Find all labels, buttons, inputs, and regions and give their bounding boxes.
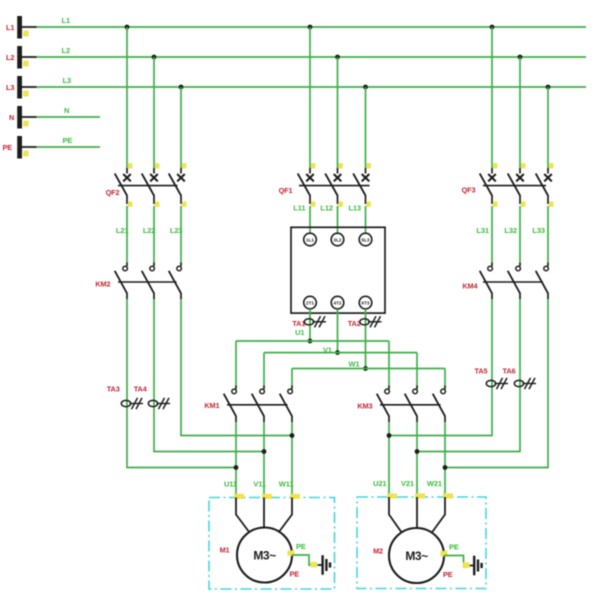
breaker QF3 linkage bar [483,185,546,187]
wire KM2.3 to node W11 [181,299,292,435]
wire U1 horizontal [236,340,389,342]
svg-text:L3: L3 [63,76,72,85]
svg-text:L22: L22 [143,226,156,235]
terminal 2T1 [304,296,317,309]
terminal marker M2 PE tap [441,551,448,557]
contactor KM2 linkage bar [118,281,177,283]
contactor KM1 pole contact x=292 [280,385,293,422]
svg-text:N: N [9,113,14,122]
terminal marker motor2 x=389 [387,493,397,498]
breaker QF1 pole terminal x=365.5 [353,163,371,207]
terminal marker motor1 x=292 [290,494,300,499]
soft starter U1 box [291,227,385,313]
svg-text:PE: PE [63,136,73,145]
terminal marker M1 ground corner [311,562,318,568]
svg-text:M1: M1 [220,546,230,555]
svg-text:KM2: KM2 [95,280,110,289]
svg-text:W21: W21 [427,479,442,488]
current transformer TA4 [148,398,170,409]
svg-text:L13: L13 [348,204,361,213]
bus N [9,106,100,129]
contactor KM3 pole contact x=389 [377,385,390,422]
wire L31 (QF3 to KM4) [491,206,493,263]
node L2/QF1.2 junction [335,55,340,168]
svg-text:V21: V21 [401,479,414,488]
current transformer TA2 [360,316,382,327]
node L1/QF3.1 junction [490,25,495,168]
node L1/QF2.1 junction [125,25,130,168]
terminal marker M1 PE tap [288,550,295,556]
node L2/QF2.2 junction [152,55,157,168]
svg-text:L31: L31 [476,226,489,235]
wire KM1 output W11 [291,422,293,497]
svg-text:TA4: TA4 [134,385,148,394]
current transformer TA5 [486,378,508,389]
svg-text:2T1: 2T1 [306,301,314,306]
motor M1 enclosure (dashed) [209,498,335,590]
wire KM4.2 to node V21 [417,299,520,451]
svg-text:PE: PE [449,543,459,552]
svg-text:L23: L23 [170,226,183,235]
node L3/QF1.3 junction [363,85,368,168]
contactor KM4 linkage bar [483,281,543,283]
svg-text:L1: L1 [62,16,71,25]
svg-text:L21: L21 [116,226,129,235]
terminal marker motor2 x=417 [415,493,425,498]
terminal marker motor2 x=445 [443,493,453,498]
terminal marker motor1 x=264 [262,494,272,499]
wire KM2.2 to node V11 [154,299,264,451]
svg-text:U21: U21 [373,479,386,488]
svg-text:M3~: M3~ [405,549,428,563]
terminal marker motor1 x=236 [234,494,244,499]
breaker QF3 pole terminal x=492 [480,163,498,207]
contactor KM1 pole contact x=236 [224,385,237,422]
node W1 junction [363,366,368,371]
motor M1 [237,528,292,583]
svg-text:N: N [64,106,69,115]
contactor KM3 linkage bar [380,404,441,406]
svg-text:L11: L11 [293,204,305,213]
bus PE [3,136,101,159]
svg-text:L1: L1 [6,23,14,32]
svg-text:M2: M2 [373,547,383,556]
svg-text:V11: V11 [253,480,266,489]
motor M2 [389,528,444,583]
wire KM3 output U21 [388,422,390,497]
svg-text:QF3: QF3 [462,186,476,195]
terminal 3L2 [331,233,344,246]
wire 2T1 to node U1 [309,309,311,341]
motor M2 internal leads [389,497,445,533]
svg-text:L3: L3 [6,83,14,92]
wire M2 PE to ground [444,556,470,566]
svg-text:PE: PE [443,570,453,579]
bus L3 [6,76,586,99]
breaker QF2 pole terminal x=127 [115,163,133,207]
svg-text:TA2: TA2 [348,319,361,328]
breaker QF1 linkage bar [299,185,370,187]
svg-text:KM4: KM4 [462,282,478,291]
wire feed KM1 x=236 [235,341,237,385]
node L1/QF1.1 junction [308,25,313,168]
ground (PE earth) motor2 [474,556,481,576]
svg-text:L2: L2 [62,46,71,55]
node V1 junction [335,350,340,355]
contactor KM2 pole contact x=181 [169,263,182,300]
wire L22 (QF2 to KM2) [153,206,155,263]
svg-text:4T2: 4T2 [334,301,342,306]
wire KM3 output V21 [416,422,418,497]
current transformer TA1 [304,316,326,327]
wire L33 (QF3 to KM4) [547,206,549,263]
svg-text:L12: L12 [320,204,333,213]
wire L23 (QF2 to KM2) [180,206,182,263]
wire KM4.1 to node U21 [389,299,492,435]
wire feed KM3 x=389 [388,341,390,385]
wire L11 (QF1 to soft-starter) [309,206,311,233]
bus L2 [6,46,586,69]
breaker QF2 pole terminal x=181 [169,163,187,207]
wire feed KM1 x=292 [291,369,293,386]
svg-text:KM3: KM3 [357,402,372,411]
contactor KM4 pole contact x=492 [480,263,493,300]
breaker QF2 linkage bar [118,185,178,187]
node V21 junction [415,449,420,454]
motor M2 enclosure (dashed) [357,497,486,589]
wire 4T2 to node V1 [337,309,339,353]
svg-text:3L2: 3L2 [334,237,342,242]
node U1 junction [308,339,313,344]
svg-text:TA6: TA6 [503,366,516,375]
wire feed KM3 x=445 [444,369,446,386]
svg-text:PE: PE [296,542,306,551]
node U21 junction [387,433,392,438]
terminal 1L1 [304,233,317,246]
node L2/QF3.2 junction [518,55,523,168]
svg-text:QF2: QF2 [106,188,120,197]
svg-text:U1: U1 [295,328,304,337]
svg-text:1L1: 1L1 [306,237,314,242]
svg-text:W11: W11 [279,480,294,489]
svg-text:5L3: 5L3 [362,237,370,242]
svg-text:TA1: TA1 [292,319,305,328]
node V11 junction [262,449,267,454]
wire KM3 output W21 [444,422,446,497]
svg-text:PE: PE [290,570,300,579]
wire L12 (QF1 to soft-starter) [337,206,339,233]
node L3/QF2.3 junction [179,85,184,168]
node L3/QF3.3 junction [546,85,551,168]
contactor KM2 pole contact x=154 [142,263,155,300]
svg-text:KM1: KM1 [204,401,219,410]
contactor KM2 pole contact x=127 [115,263,128,300]
breaker QF1 pole terminal x=337.5 [325,163,343,207]
svg-text:M3~: M3~ [253,549,276,563]
wire L32 (QF3 to KM4) [519,206,521,263]
motor M1 internal leads [236,498,292,533]
contactor KM1 pole contact x=264 [252,385,265,422]
breaker QF3 pole terminal x=520 [508,163,526,207]
wire L21 (QF2 to KM2) [126,206,128,263]
node W11 junction [290,433,295,438]
ground (PE earth) motor1 [323,555,330,575]
svg-text:L2: L2 [6,53,14,62]
svg-text:L32: L32 [504,226,517,235]
wire KM1 output V11 [263,422,265,497]
wire L13 (QF1 to soft-starter) [365,206,367,233]
wire KM2.1 to node U11 [127,299,236,467]
terminal 6T3 [359,296,372,309]
svg-text:L33: L33 [532,226,545,235]
contactor KM4 pole contact x=548 [536,263,549,300]
breaker QF2 pole terminal x=154 [142,163,160,207]
svg-text:PE: PE [3,143,13,152]
terminal marker M2 ground corner [463,562,470,568]
wire feed KM1 x=264 [263,353,265,386]
node W21 junction [443,465,448,470]
wire V1 horizontal [264,352,417,354]
bus L1 [6,16,586,39]
contactor KM3 pole contact x=417 [405,385,418,422]
svg-text:W1: W1 [348,360,359,369]
wire M1 PE to ground [292,555,318,565]
wire KM1 output U11 [235,422,237,497]
wire KM4.3 to node W21 [445,299,548,467]
svg-text:TA5: TA5 [475,366,488,375]
breaker QF1 pole terminal x=310 [298,163,316,207]
svg-text:6T3: 6T3 [362,301,370,306]
wire W1 horizontal [292,368,445,370]
terminal 4T2 [331,296,344,309]
svg-text:QF1: QF1 [279,186,293,195]
current transformer TA3 [121,398,143,409]
node U11 junction [234,465,239,470]
contactor KM4 pole contact x=520 [508,263,521,300]
svg-text:TA3: TA3 [107,385,120,394]
contactor KM3 pole contact x=445 [433,385,446,422]
wire 6T3 to node W1 [365,309,367,369]
terminal 5L3 [359,233,372,246]
svg-text:U11: U11 [224,480,237,489]
breaker QF3 pole terminal x=548 [536,163,554,207]
current transformer TA6 [514,378,536,389]
wire feed KM3 x=417 [416,353,418,386]
contactor KM1 linkage bar [227,404,288,406]
